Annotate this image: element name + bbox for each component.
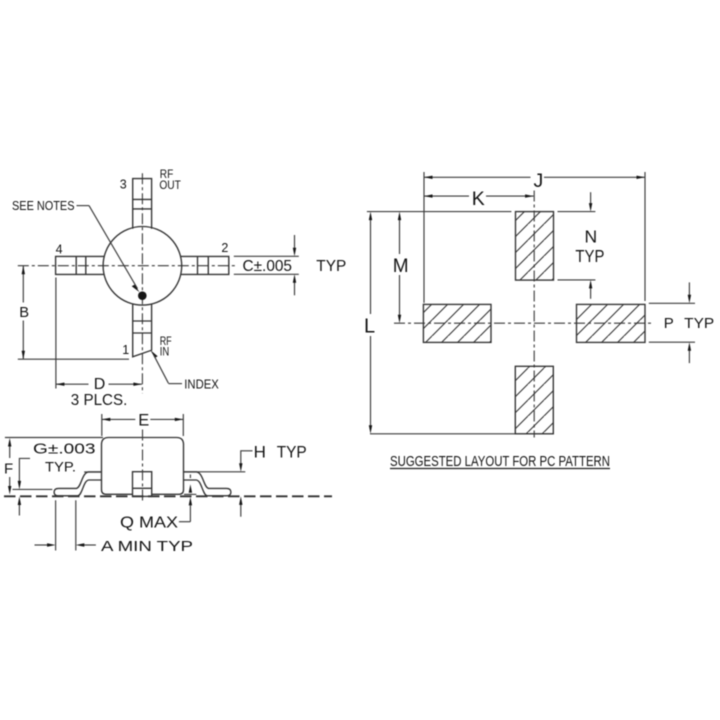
dim N top arrow (590, 192, 592, 204)
dim N bottom arrow (590, 288, 592, 299)
dim K line (424, 195, 469, 197)
lead 4 (left) (56, 256, 105, 274)
svg-text:3: 3 (120, 177, 127, 191)
dim D left arrow (56, 383, 65, 386)
svg-text:N: N (585, 226, 598, 246)
svg-text:G±.003: G±.003 (33, 441, 96, 458)
left lead top exit line (84, 471, 101, 473)
SEE NOTES arrowhead (132, 285, 140, 293)
svg-text:A MIN TYP: A MIN TYP (101, 538, 193, 555)
dim E arrows (102, 418, 111, 421)
top pad (516, 212, 554, 281)
dim E line (102, 418, 136, 420)
center tab (side) (133, 472, 152, 497)
dim D line (56, 383, 89, 385)
svg-text:J: J (534, 170, 544, 192)
side view centerline (142, 430, 144, 503)
svg-text:TYP: TYP (316, 258, 346, 275)
right lead (side) (183, 472, 231, 496)
package body circle (103, 226, 182, 305)
svg-text:3 PLCS.: 3 PLCS. (71, 392, 128, 409)
dim D left extension line (55, 278, 57, 389)
left lead (side) (54, 472, 102, 496)
svg-text:2: 2 (221, 241, 228, 255)
dim H elbow (241, 451, 253, 464)
dim B bottom arrow (22, 351, 25, 360)
dim C extension lines (234, 255, 299, 257)
lead 3 ticks (133, 198, 152, 200)
lead top extension line (left) (13, 488, 53, 490)
svg-text:M: M (393, 256, 409, 277)
SEE NOTES leader (77, 205, 90, 207)
lead 3 (top) (133, 179, 152, 229)
dim A right arrow (84, 544, 96, 546)
dim P top arrow (688, 282, 690, 295)
svg-text:F: F (4, 461, 13, 478)
svg-text:OUT: OUT (159, 180, 181, 192)
lead 1 (bottom, with index chamfer) (133, 304, 152, 357)
svg-text:TYP: TYP (277, 443, 307, 462)
dim G line (9, 444, 11, 458)
dim B line (22, 266, 24, 303)
dim M line (399, 218, 401, 254)
svg-text:TYP: TYP (575, 246, 604, 266)
dim D right arrow (133, 383, 142, 386)
lead 1 ticks (133, 320, 152, 322)
dim E extension lines (101, 414, 103, 436)
dim F elbow (19, 458, 30, 481)
bottom pad (515, 366, 553, 434)
dim Q vertical (189, 475, 191, 479)
horizontal centerline (18, 265, 237, 267)
svg-text:B: B (19, 305, 29, 321)
dim H down arrow (239, 463, 242, 472)
package body (side) (102, 438, 184, 495)
dim F label (3, 461, 15, 475)
dim G bottom arrow (8, 486, 11, 495)
dim F down arrow (18, 481, 21, 490)
H extension line (184, 471, 246, 473)
P ext lines (649, 302, 695, 304)
lead 4 ticks (75, 256, 77, 274)
dim A left arrow (35, 544, 48, 546)
dim K arrows (424, 194, 433, 197)
svg-text:TYP: TYP (684, 315, 714, 332)
caption underline (390, 468, 610, 470)
lead 2 ticks (197, 256, 199, 274)
dim G top arrow (8, 438, 11, 447)
vertical centerline (141, 173, 143, 393)
left pad (423, 304, 491, 342)
svg-text:E: E (138, 412, 149, 430)
dim L line (370, 218, 372, 314)
svg-text:C±.005: C±.005 (243, 258, 293, 275)
body top extension line (5, 437, 103, 439)
dim J line (424, 176, 531, 178)
dim F below-seating arrow (18, 504, 20, 516)
svg-text:D: D (94, 376, 106, 393)
svg-text:SEE NOTES: SEE NOTES (12, 199, 75, 213)
svg-text:IN: IN (160, 346, 170, 358)
svg-text:K: K (472, 188, 485, 210)
dim J arrows (424, 176, 433, 179)
INDEX leader (150, 350, 157, 358)
svg-text:P: P (664, 315, 674, 332)
svg-text:4: 4 (56, 242, 63, 256)
N top ext segment (558, 211, 596, 213)
J left extension line (423, 172, 425, 303)
dim B top arrow (22, 266, 25, 275)
lead 2 (right) (181, 256, 229, 274)
dim H below-seating arrow (240, 504, 242, 517)
vertical centerline (533, 191, 535, 438)
horizontal centerline (394, 322, 652, 324)
right pad (577, 304, 646, 342)
svg-text:1: 1 (122, 343, 129, 357)
svg-text:INDEX: INDEX (184, 376, 219, 391)
dim M arrows (398, 212, 401, 221)
bottom ext line (370, 433, 515, 435)
tab inner line (133, 487, 152, 489)
index dot (138, 291, 147, 300)
dim C top arrow (294, 235, 296, 249)
dim L arrows (369, 212, 372, 221)
dim C bottom arrow (294, 282, 296, 296)
J right extension line (644, 172, 646, 301)
svg-text:H: H (254, 443, 266, 462)
top ext line y=211.6 (367, 211, 512, 213)
seating plane (4, 495, 332, 497)
dim B bottom extension line (18, 358, 129, 360)
svg-text:TYP.: TYP. (45, 459, 76, 475)
dim A extension lines (55, 500, 57, 550)
dim P bottom arrow (688, 350, 690, 363)
svg-text:Q MAX: Q MAX (120, 515, 178, 532)
N bottom ext segment (558, 279, 596, 281)
svg-text:SUGGESTED LAYOUT FOR PC PATTER: SUGGESTED LAYOUT FOR PC PATTERN (390, 453, 610, 470)
svg-text:L: L (364, 316, 375, 338)
